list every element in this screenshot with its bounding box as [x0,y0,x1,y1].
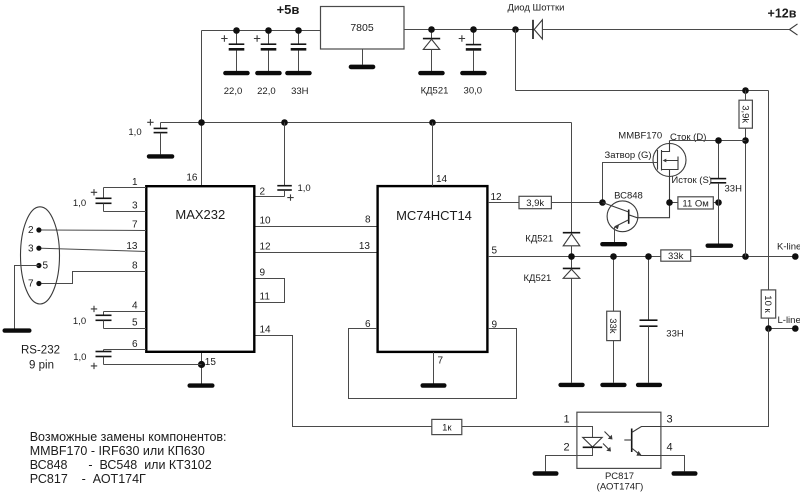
svg-text:4: 4 [132,300,138,311]
svg-text:Возможные замены компонентов:: Возможные замены компонентов: [30,430,227,444]
resistor R4 3,9k vertical [739,91,752,141]
svg-text:Диод Шоттки: Диод Шоттки [508,3,565,14]
ground [418,71,445,75]
junction [198,119,205,126]
svg-text:КД521: КД521 [421,86,449,97]
junction [715,199,722,206]
svg-text:K-line: K-line [777,241,800,252]
chip U2 MC74HCT14 [378,186,488,352]
svg-text:33Н: 33Н [666,329,684,340]
svg-text:12: 12 [491,192,503,203]
resistor R2 33k vertical [607,257,621,383]
junction [295,27,302,34]
diode VD3 KD521 upper [525,123,580,257]
diode VD4 KD521 lower [523,257,580,383]
svg-text:MMBF170: MMBF170 [618,131,662,142]
wire opto pin4 to ground [661,456,685,472]
svg-text:6: 6 [365,319,371,330]
junction [666,199,673,206]
svg-text:14: 14 [260,325,272,336]
ground [706,244,734,248]
svg-text:1: 1 [132,177,138,188]
svg-text:16: 16 [186,173,198,184]
pin 6 wire [104,339,147,350]
resistor R3 33k horizontal [661,250,691,262]
pin 12 wire to HCT14 pin 13 [256,241,378,252]
svg-text:1,0: 1,0 [73,352,86,363]
junction [470,26,477,33]
svg-text:7: 7 [28,278,34,289]
svg-text:11 Ом: 11 Ом [682,198,708,209]
svg-text:8: 8 [365,215,371,226]
svg-text:8: 8 [132,261,138,272]
svg-text:14: 14 [436,174,448,185]
node pin3 [28,244,42,255]
svg-text:9: 9 [260,268,266,279]
junction [198,361,205,368]
ground [636,383,662,387]
svg-text:3: 3 [28,244,34,255]
wire 5v distribution rail [161,122,572,124]
svg-text:ВС848: ВС848 [614,190,643,201]
pin 4 wire [104,300,147,311]
junction [742,87,749,94]
capacitor C1 22,0 [221,31,244,98]
svg-text:1: 1 [563,414,569,426]
ground [188,383,215,387]
diode VD1 KD521 [421,30,449,97]
node pin2 [28,225,42,236]
svg-text:+12в: +12в [768,6,797,20]
svg-text:1к: 1к [442,423,452,434]
svg-text:Исток (S): Исток (S) [671,175,712,186]
svg-text:22,0: 22,0 [257,86,276,97]
wire +12v rail right of 7805 [404,29,533,31]
wire L-line [769,328,796,330]
svg-text:9 pin: 9 pin [29,360,54,372]
junction [233,27,240,34]
capacitor C6 1,0 pins1-3 [73,188,146,212]
regulator U3 7805 [321,7,405,65]
ground [558,383,584,387]
resistor R7 1k [432,419,577,434]
svg-text:1,0: 1,0 [298,183,311,194]
svg-text:5: 5 [492,245,498,256]
ground [533,471,559,475]
ground [460,71,487,75]
svg-text:3,9k: 3,9k [526,198,544,209]
svg-text:Затвор (G): Затвор (G) [605,150,652,161]
wire drain [670,140,746,142]
svg-text:12: 12 [260,242,272,253]
wire L-line branch [768,91,770,290]
ground [421,383,447,387]
capacitor C8 1,0 pin6 [73,350,201,370]
wire vertical +5v to pin16 [201,31,203,186]
optocoupler U4 PC817 [563,412,672,492]
junction [265,27,272,34]
connector RS-232 ellipse [21,207,60,304]
diode VD2 Schottky [508,3,790,40]
transistor Q2 BC848 [603,190,670,242]
wire pin5 to ground [15,266,39,329]
svg-text:(АОТ174Г): (АОТ174Г) [597,481,644,492]
wire +5v rail left [202,30,321,32]
svg-text:MMBF170 - IRF630 или КП630: MMBF170 - IRF630 или КП630 [30,444,205,458]
svg-text:MC74HCT14: MC74HCT14 [396,208,472,223]
junction [610,253,617,260]
capacitor C10 33H lower [640,257,684,383]
transistor Q1 MMBF170 [605,131,712,203]
ground [223,71,250,75]
chip U1 MAX232 [146,186,254,352]
capacitor C4 30,0 [459,30,482,97]
svg-text:L-line: L-line [778,315,800,326]
junction [645,253,652,260]
capacitor C9 1,0 pin2 [256,123,311,201]
capacitor C2 22,0 [254,31,276,98]
capacitor C11 33H source [711,141,742,244]
resistor R5 10k vertical [761,290,776,329]
ground [600,242,627,246]
capacitor C5 1,0 top-left [128,119,167,154]
ground [285,71,312,75]
resistor R6 11 Om [670,197,719,210]
wire pins 9-11 loop [256,268,285,303]
junction [715,137,722,144]
junction [742,137,749,144]
junction [599,199,606,206]
svg-text:ВС848 - ВС548 или КТ310: ВС848 - ВС548 или КТ3102 [30,458,212,472]
pin 15 [202,353,217,384]
svg-text:1,0: 1,0 [73,198,86,209]
ground [255,71,282,75]
junction [568,253,575,260]
svg-text:7: 7 [438,355,444,366]
svg-text:+5в: +5в [277,2,300,17]
node pin5 [36,261,48,272]
svg-text:RS-232: RS-232 [21,344,60,356]
pin 13 wire [42,241,147,252]
svg-text:3,9k: 3,9k [739,105,750,123]
junction [742,253,749,260]
svg-text:33Н: 33Н [725,183,743,194]
svg-text:1,0: 1,0 [128,127,141,138]
pin 14 riser [433,123,448,187]
wire L-line to opto pin3 [661,329,769,427]
svg-text:6: 6 [132,339,138,350]
svg-text:11: 11 [260,292,271,303]
svg-text:22,0: 22,0 [224,86,243,97]
svg-text:33k: 33k [668,251,684,262]
svg-text:15: 15 [205,357,217,368]
ground [147,154,175,158]
svg-text:10 к: 10 к [762,295,773,313]
pin 10 wire to HCT14 pin 8 [256,215,378,227]
ground [672,471,698,475]
wire 12v branch down [515,30,517,91]
svg-text:9: 9 [492,320,498,331]
note replacements text [30,430,227,486]
svg-text:30,0: 30,0 [464,86,483,97]
pin 14 wire [256,325,432,427]
capacitor C7 1,0 pins4-5 [73,306,146,329]
pin 5 wire K-line node [488,245,795,256]
junction [429,119,436,126]
svg-text:3: 3 [132,200,138,211]
junction [765,325,772,332]
pin 7 wire [42,219,147,230]
phototransistor inside opto [624,427,661,456]
svg-text:КД521: КД521 [525,233,553,244]
svg-text:Сток (D): Сток (D) [670,132,706,143]
svg-text:33Н: 33Н [291,86,309,97]
svg-text:3: 3 [666,414,672,426]
svg-text:1,0: 1,0 [73,316,86,327]
LED inside opto [577,427,613,456]
svg-text:MAX232: MAX232 [175,207,225,222]
svg-text:7: 7 [132,219,138,230]
node L-line end [792,325,799,332]
pin 1 wire [104,177,147,188]
wire 12v horizontal rail [516,90,769,92]
svg-text:13: 13 [359,241,371,252]
svg-text:2: 2 [260,187,266,198]
pin 12 wire to 3,9k [488,192,603,203]
svg-text:КД521: КД521 [523,273,551,284]
svg-text:5: 5 [43,261,49,272]
wire gate [603,163,658,203]
ground [600,383,626,387]
svg-text:10: 10 [260,216,272,227]
wire opto pin2 to ground [546,456,577,472]
node pin7 [28,278,42,289]
node +12v arrow [768,6,798,35]
junction [428,26,435,33]
wire pins 6-9 loop [349,319,517,399]
svg-text:5: 5 [132,317,138,328]
ground [349,65,376,70]
pin 7 ground [434,352,444,384]
junction [281,119,288,126]
pin 8 wire [42,261,147,284]
ground [3,328,32,332]
svg-text:2: 2 [28,225,34,236]
capacitor C3 33H [291,31,309,98]
svg-text:4: 4 [666,442,672,454]
node K-line end [792,253,799,260]
junction [512,26,519,33]
wire K-line pullup [745,141,747,257]
resistor R1 3,9k [519,196,551,209]
svg-text:2: 2 [563,442,569,454]
svg-text:33k: 33k [607,318,618,334]
svg-text:РС817 - АОТ174Г: РС817 - АОТ174Г [30,472,146,486]
svg-text:13: 13 [126,241,138,252]
svg-text:7805: 7805 [350,22,374,34]
